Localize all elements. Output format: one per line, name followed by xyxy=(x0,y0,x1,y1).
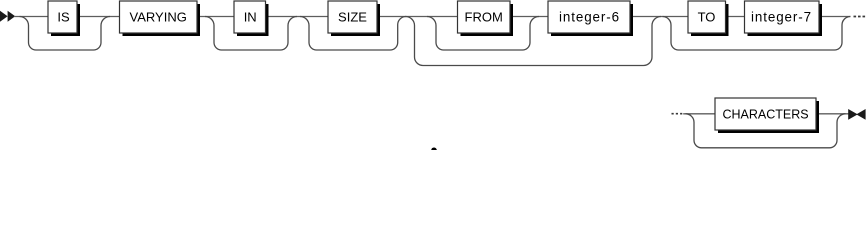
bypass loop around IN xyxy=(205,17,297,51)
long skip wire bypassing FROM integer-6 xyxy=(406,17,662,66)
svg-text:integer-7: integer-7 xyxy=(751,10,812,25)
keyword box VARYING xyxy=(120,1,201,36)
svg-text:VARYING: VARYING xyxy=(130,10,187,25)
svg-text:CHARACTERS: CHARACTERS xyxy=(722,108,808,122)
bypass loop around IS xyxy=(20,17,111,51)
start arrows xyxy=(0,11,15,22)
bypass loop around CHARACTERS xyxy=(686,114,846,148)
main wire row 2 xyxy=(683,113,849,115)
variable box integer-6 xyxy=(548,1,633,36)
dotted continuation wire row 1 xyxy=(854,16,866,18)
svg-text:IS: IS xyxy=(57,10,70,25)
svg-text:FROM: FROM xyxy=(465,10,503,25)
svg-text:TO: TO xyxy=(698,10,716,25)
keyword box IN xyxy=(234,1,269,36)
stray glyph fragment bottom center xyxy=(431,148,437,151)
bypass loop around FROM xyxy=(427,17,539,51)
keyword box FROM xyxy=(458,1,514,36)
main wire row 1 xyxy=(14,16,851,18)
keyword box SIZE xyxy=(328,1,380,36)
bypass loop around TO integer-7 xyxy=(663,17,851,51)
variable box integer-7 xyxy=(745,1,823,36)
keyword box CHARACTERS xyxy=(715,98,819,133)
end bowtie arrows xyxy=(848,109,865,120)
keyword box IS xyxy=(48,1,80,36)
dotted continuation wire row 2 xyxy=(672,113,684,115)
keyword box TO xyxy=(688,1,729,36)
svg-text:IN: IN xyxy=(244,10,257,25)
svg-text:SIZE: SIZE xyxy=(338,10,367,25)
bypass loop around SIZE xyxy=(300,17,406,51)
svg-text:integer-6: integer-6 xyxy=(559,10,620,25)
